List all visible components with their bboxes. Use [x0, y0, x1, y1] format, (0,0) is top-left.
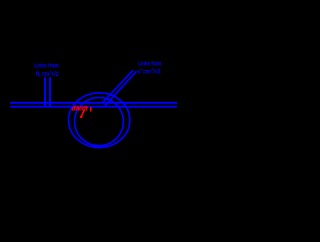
svg-text:dW/dt: dW/dt: [72, 105, 89, 112]
wire: horizontal road lower line: [10, 106, 177, 108]
wire: horizontal road upper line: [10, 102, 177, 104]
svg-text:Links from: Links from: [34, 62, 59, 69]
outer ring road circle: [69, 93, 130, 148]
wire: vertical road left line: [44, 77, 46, 107]
red arrow: [81, 110, 85, 118]
wire: vertical road right line: [49, 77, 51, 107]
svg-text:RL=πr2/√2: RL=πr2/√2: [36, 70, 59, 78]
inner ring road circle: [75, 98, 124, 146]
wire: diagonal road upper line: [102, 70, 133, 103]
red tick mark: [90, 107, 92, 112]
wire: diagonal road lower line: [105, 71, 137, 106]
